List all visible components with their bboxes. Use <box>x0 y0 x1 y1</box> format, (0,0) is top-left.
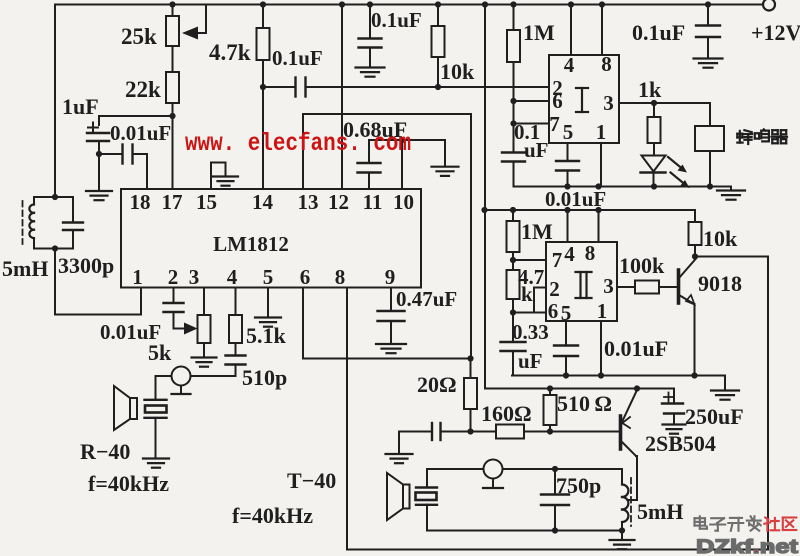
junction node C pin12 rail <box>339 1 345 7</box>
wire transmit top <box>427 468 622 470</box>
junction rail1 x598 <box>595 183 601 189</box>
wire 1k to LED <box>653 143 655 156</box>
label 5k <box>148 340 172 365</box>
pin label 13 top <box>298 190 319 214</box>
IC U1 LM1812 body <box>121 189 421 288</box>
svg-text:f=40kHz: f=40kHz <box>88 471 169 496</box>
pin label 7 A <box>549 112 560 136</box>
wire rail2 to 10kB <box>694 210 696 222</box>
ground 0.1uF 12V <box>694 59 723 68</box>
wire transmit bottom <box>427 530 622 532</box>
label T-40 <box>287 468 336 493</box>
wire 0.1uF 12V gnd <box>707 37 709 58</box>
svg-text:0.1uF: 0.1uF <box>632 20 685 45</box>
transducer T-40 crystal <box>416 488 438 505</box>
wire +12V top supply rail <box>55 4 763 6</box>
IC U3 555 body <box>546 242 617 321</box>
label 5mH <box>2 256 48 281</box>
label 0.47uF <box>396 287 457 311</box>
wire circle R stub <box>180 386 182 395</box>
svg-text:10k: 10k <box>703 226 738 251</box>
speaker T-40 horn <box>387 473 410 520</box>
wire 20ohm down <box>470 409 472 432</box>
capacitor 250uF <box>662 404 684 425</box>
pin label 3 bottom <box>189 265 200 289</box>
symbol I-beam B <box>576 272 592 298</box>
arrow 2SB504 emitter <box>622 417 630 428</box>
resistor 1k <box>648 117 661 143</box>
capacitor 0.01uF pin2 <box>164 303 184 312</box>
wire 1M-B top <box>512 210 514 221</box>
junction 510 top <box>547 385 553 391</box>
wire LED to rail <box>653 173 655 187</box>
core line 5mH transmit <box>630 478 632 526</box>
svg-text:+12V: +12V <box>751 20 800 45</box>
svg-text:6: 6 <box>548 299 559 323</box>
ground 0.47uF <box>376 344 406 353</box>
svg-text:0.1uF: 0.1uF <box>272 46 323 70</box>
wire T-40 top stub <box>426 469 428 488</box>
label 160ohm <box>481 401 532 426</box>
resistor 4.7k <box>257 28 270 60</box>
capacitor 0.33uF <box>501 342 526 351</box>
svg-text:5k: 5k <box>148 340 172 365</box>
svg-text:250uF: 250uF <box>685 404 744 429</box>
label 4.7k <box>209 40 251 65</box>
pin label 5 A <box>563 120 574 144</box>
wire 4.7kB down <box>512 299 514 313</box>
svg-text:12: 12 <box>328 190 349 214</box>
junction pin10 net <box>399 137 405 143</box>
junction node B 4.7k top <box>260 1 266 7</box>
pin label 7 B <box>552 248 563 272</box>
pin label 4 B <box>564 242 575 266</box>
pin label 6 bottom <box>300 265 311 289</box>
watermark footer DZkf.net <box>696 537 799 556</box>
wire to 555A pin7 <box>514 123 550 125</box>
wire 555A pin4 riser <box>570 5 572 56</box>
wire collector down <box>628 456 637 500</box>
wire 0.47uF gnd <box>390 321 392 344</box>
svg-text:11: 11 <box>363 190 383 214</box>
ground rail1 <box>717 187 745 200</box>
junction node H pin4 rail <box>568 1 574 7</box>
wire 1uF ground stem <box>98 154 100 191</box>
junction tank bottom <box>52 245 58 251</box>
capacitor 0.47uF <box>378 311 405 321</box>
wire to 0.01uF <box>99 153 123 155</box>
svg-text:5mH: 5mH <box>2 256 48 281</box>
core line 5mH <box>22 201 24 244</box>
svg-text:22k: 22k <box>125 77 161 102</box>
label 5.1k <box>246 323 287 348</box>
junction collector B <box>692 253 698 259</box>
svg-text:14: 14 <box>252 190 274 214</box>
ground 1uF branch <box>86 191 112 200</box>
pin label 5 bottom <box>263 265 274 289</box>
wire 555B pin8 riser <box>598 210 600 242</box>
wire 555B pin2 tie <box>534 288 546 313</box>
junction node I pin8 rail <box>599 1 605 7</box>
wire coil gnd stem <box>621 531 623 540</box>
wire 555A pin8 riser <box>601 5 603 56</box>
capacitor 510p <box>226 356 246 365</box>
junction LED rail <box>651 183 657 189</box>
svg-text:0.47uF: 0.47uF <box>396 287 457 311</box>
pin label 6 B <box>548 299 559 323</box>
svg-text:20Ω: 20Ω <box>417 372 457 397</box>
junction 10k bottom <box>435 84 441 90</box>
bar circle T <box>483 487 503 489</box>
resistor 160ohm <box>496 425 524 439</box>
potentiometer 5k <box>198 315 211 343</box>
wire 25k wiper from rail <box>198 5 206 34</box>
junction node J 0.1uF-12V rail <box>705 1 711 7</box>
pin label 15 top <box>196 190 217 214</box>
wire pin15 hook <box>211 163 226 190</box>
wire 555B pin5 stem <box>565 321 567 346</box>
junction node A 25k top <box>169 1 175 7</box>
pin label 3 A <box>603 91 614 115</box>
svg-text:www. elecfans. com: www. elecfans. com <box>185 129 411 158</box>
wire 100k to base <box>659 286 677 288</box>
potentiometer 25k <box>166 16 179 46</box>
label 25k <box>121 24 157 49</box>
wire 25k-22k <box>172 46 174 72</box>
svg-text:f=40kHz: f=40kHz <box>232 503 313 528</box>
svg-text:R−40: R−40 <box>80 439 130 464</box>
label 4.7 B <box>518 265 544 289</box>
wire 1uF to node <box>98 141 100 154</box>
label 20ohm <box>417 372 457 397</box>
wire 0.1uF 12V stem <box>707 5 709 26</box>
wire 160 line right <box>524 431 619 433</box>
svg-text:1k: 1k <box>638 77 662 102</box>
wire 9018 emitter down <box>694 304 696 376</box>
label 3300p <box>58 253 114 278</box>
junction 22k/1uF node <box>169 113 175 119</box>
wire tank top <box>34 196 73 198</box>
wire 4.7kB stub <box>512 260 514 270</box>
capacitor 0.1uF coupling <box>296 78 306 97</box>
label 0.1uF 12V <box>632 20 685 45</box>
wire tank cap top <box>72 197 74 223</box>
wire 0.33 stem <box>512 313 514 343</box>
resistor 4.7k B <box>507 270 520 299</box>
svg-text:4.7k: 4.7k <box>209 40 251 65</box>
junction 20ohm/160 line <box>467 428 473 434</box>
pin label 1 bottom <box>132 265 143 289</box>
pin label 1 B <box>597 299 608 323</box>
resistor 510ohm <box>544 395 557 425</box>
svg-text:15: 15 <box>196 190 217 214</box>
wire pin12 riser <box>341 5 343 190</box>
wire 555B pin4 riser <box>567 210 569 242</box>
wire 250uF branch <box>673 389 675 404</box>
svg-text:6: 6 <box>300 265 311 289</box>
junction 510 bottom <box>547 428 553 434</box>
watermark elecfans <box>185 129 411 158</box>
wire tank to pin1 <box>55 249 141 315</box>
svg-text:0.01uF: 0.01uF <box>604 336 668 361</box>
terminal +12V <box>763 0 775 11</box>
svg-text:750p: 750p <box>556 473 601 498</box>
label k B <box>521 282 533 306</box>
ground pin15 <box>213 177 238 186</box>
wire pin3 stem <box>203 288 205 316</box>
label 750p <box>556 473 601 498</box>
wire pin4 stem <box>235 288 237 316</box>
wire left rail down <box>54 5 56 198</box>
LED D1 <box>641 156 666 173</box>
label LM1812 <box>213 232 289 256</box>
capacitor 0.01uF pin18 <box>123 145 133 164</box>
wire pin8 long loop <box>347 257 768 550</box>
wire 5k gnd <box>203 343 205 357</box>
IC U2 555 body <box>549 55 619 143</box>
pin label 3 B <box>603 274 614 298</box>
wire circle T stub <box>492 479 494 488</box>
capacitor 1uF <box>87 133 109 141</box>
svg-text:160Ω: 160Ω <box>481 401 532 426</box>
wire 555A pin5 stem <box>567 143 569 161</box>
svg-text:3300p: 3300p <box>58 253 114 278</box>
label 22k <box>125 77 161 102</box>
svg-text:1: 1 <box>596 120 607 144</box>
wire 0.01uF to pin18 <box>133 154 148 189</box>
label 9018 <box>698 271 742 296</box>
wire to 555B pin7 <box>513 259 546 261</box>
junction rail2 pin8 <box>595 207 601 213</box>
svg-text:510p: 510p <box>242 365 287 390</box>
junction rail1 x567 <box>564 183 570 189</box>
label 0.33 <box>512 320 549 344</box>
svg-text:1: 1 <box>597 299 608 323</box>
svg-text:9: 9 <box>385 265 396 289</box>
wire cap to gnd corner <box>399 432 432 454</box>
wire 1M-A top <box>513 5 515 31</box>
wire R-40 top <box>155 376 157 400</box>
bar circle R <box>172 393 191 395</box>
transistor Q1 9018 <box>679 259 697 305</box>
LED arrows <box>668 157 690 188</box>
label 0.01uF pin18 <box>110 121 171 145</box>
svg-text:3: 3 <box>603 274 614 298</box>
svg-text:0.01uF: 0.01uF <box>110 121 171 145</box>
label 2SB504 <box>645 431 716 456</box>
wire 510 stub top <box>549 389 551 396</box>
ground pin5 <box>255 318 281 327</box>
label 100k <box>619 253 665 278</box>
wire rail3 gnd <box>724 376 726 391</box>
label 1M B <box>521 219 553 244</box>
resistor 1M A <box>507 30 520 62</box>
ground R-40 <box>143 459 169 468</box>
junction node E 10k top <box>435 1 441 7</box>
arrow 5k wiper <box>184 323 198 335</box>
wire 0.1uF to 555A pin2 <box>306 86 550 88</box>
ground 0.1uF mid <box>356 68 385 77</box>
wire circle R left <box>156 375 172 377</box>
inductor 5mH receive <box>29 197 34 249</box>
wire pin2 cap to wiper <box>174 312 185 329</box>
label 0.68uF <box>343 117 407 142</box>
wire long column F <box>484 5 486 389</box>
wire 160 line left <box>441 431 497 433</box>
wire drive line <box>485 388 674 390</box>
pin label 4 A <box>564 53 575 77</box>
ground transformer <box>610 540 635 549</box>
pin label 8 bottom <box>335 265 346 289</box>
wire to 555B pin6 <box>513 312 546 314</box>
wire tank cap bottom <box>72 230 74 249</box>
arrow 25k wiper <box>182 27 198 40</box>
label uF B <box>518 349 543 373</box>
wire 555A pin1 stem <box>600 143 602 187</box>
wire 750p down <box>554 505 556 531</box>
svg-text:9018: 9018 <box>698 271 742 296</box>
wire 555A pin3 <box>619 102 710 104</box>
pin label 5 B <box>561 301 572 325</box>
inductor 5mH transmit <box>622 469 628 531</box>
svg-text:4: 4 <box>564 53 575 77</box>
pin label 11 top <box>363 190 383 214</box>
resistor 100k <box>635 281 659 294</box>
pin label 8 B <box>585 241 596 265</box>
label 0.1 A <box>514 120 540 144</box>
label 250uF <box>685 404 744 429</box>
pin label 1 A <box>596 120 607 144</box>
wire tank bottom <box>34 248 73 250</box>
terminal circle R <box>172 367 191 386</box>
junction emitter rail3 <box>691 372 697 378</box>
ground 5k <box>192 358 217 367</box>
wire pin2 stem <box>173 288 175 304</box>
ground 0.68uF <box>432 167 459 176</box>
capacitor 0.68uF <box>358 163 381 173</box>
junction rail2 pin4 <box>564 207 570 213</box>
resistor 22k <box>166 72 179 103</box>
svg-text:1uF: 1uF <box>62 94 99 119</box>
label 0.01uF B <box>604 336 668 361</box>
junction tank top <box>52 194 58 200</box>
pin label 10 top <box>393 190 414 214</box>
svg-text:2: 2 <box>549 277 560 301</box>
svg-text:25k: 25k <box>121 24 157 49</box>
capacitor 0.1uF mid <box>359 39 382 48</box>
wire 1uF branch <box>99 116 173 125</box>
junction 1k top <box>651 100 657 106</box>
wire 0.68uF top <box>369 140 445 167</box>
label R-40 <box>80 439 130 464</box>
svg-text:8: 8 <box>335 265 346 289</box>
wire 555B pin3 <box>617 286 635 288</box>
junction 1uF/0.01uF/gnd <box>96 151 102 157</box>
pin label 2 bottom <box>168 265 179 289</box>
wire 750p stem <box>554 469 556 495</box>
label buzzer 蜂鸣器 <box>737 129 787 144</box>
capacitor 250uF plus <box>664 393 673 402</box>
junction rail2 1M <box>510 207 516 213</box>
transistor Q2 2SB504 <box>621 390 638 456</box>
wire rail3 <box>512 375 725 377</box>
junction pin6/col <box>467 355 473 361</box>
pin label 2 A <box>552 76 563 100</box>
buzzer body <box>695 126 724 151</box>
ground 250uF <box>663 425 686 434</box>
wire 0.33 to rail3 <box>512 351 513 376</box>
svg-text:17: 17 <box>162 190 183 214</box>
svg-text:0.1uF: 0.1uF <box>371 8 422 32</box>
wire rail1 555A <box>514 186 732 188</box>
svg-text:4: 4 <box>564 242 575 266</box>
ground rail3 <box>711 391 739 400</box>
svg-text:4: 4 <box>227 265 238 289</box>
pin label 6 A <box>552 89 563 113</box>
transducer R-40 crystal <box>145 400 167 418</box>
wire pin10 riser <box>401 140 403 189</box>
wire 10k-A bottom <box>437 57 439 87</box>
svg-text:LM1812: LM1812 <box>213 232 289 256</box>
wire 9018 collector net <box>695 256 768 258</box>
ground 160 line <box>386 454 413 463</box>
svg-text:2: 2 <box>168 265 179 289</box>
pin label 4 bottom <box>227 265 238 289</box>
label 0.1uF mid <box>371 8 422 32</box>
junction emitter/drive <box>634 385 640 391</box>
svg-text:T−40: T−40 <box>287 468 336 493</box>
wire 0.68uF net <box>368 173 370 190</box>
label 0.01uF midA <box>545 187 606 211</box>
junction pin1B rail3 <box>598 372 604 378</box>
wire 1M-A down <box>513 62 515 153</box>
junction 750p bottom <box>552 527 558 533</box>
wire buzzer to rail <box>709 151 711 187</box>
junction pin5B rail3 <box>563 372 569 378</box>
wire 22k to pin17 <box>172 103 174 189</box>
capacitor 3300p <box>63 223 83 231</box>
junction pin6 B <box>510 309 516 315</box>
label 10k A <box>440 59 475 84</box>
label f=40kHz receive <box>88 471 169 496</box>
resistor 20ohm <box>464 378 477 409</box>
wire 4.7k to pin14 <box>262 60 264 189</box>
wire R-40 gnd stem <box>155 418 157 458</box>
watermark footer 电子开发社区 <box>695 516 797 530</box>
wire 10k-A top <box>437 5 439 27</box>
wire 1k stub <box>653 103 655 117</box>
svg-text:10k: 10k <box>440 59 475 84</box>
wire 10kB down <box>694 245 696 257</box>
capacitor pin5 A <box>556 161 579 171</box>
wire 5.1k to 510p <box>235 343 237 356</box>
svg-text:6: 6 <box>552 89 563 113</box>
wire 1M-B down <box>512 252 514 260</box>
resistor 10k A <box>432 26 445 57</box>
junction pin6 A <box>510 98 516 104</box>
pin label 2 B <box>549 277 560 301</box>
svg-text:5: 5 <box>263 265 274 289</box>
label 10k B <box>703 226 738 251</box>
svg-text:5mH: 5mH <box>637 499 683 524</box>
wire 555B pin1 stem <box>600 321 602 376</box>
label 0.01uF pin2 <box>100 320 161 344</box>
label 0.1uF coupling <box>272 46 323 70</box>
wire pin9 stem <box>390 288 392 312</box>
label 1M A <box>523 20 555 45</box>
label 510ohm <box>557 391 612 416</box>
svg-text:100k: 100k <box>619 253 665 278</box>
